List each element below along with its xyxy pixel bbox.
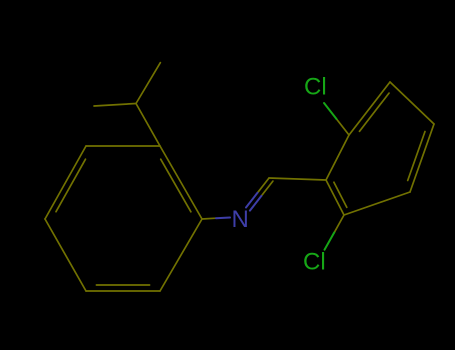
wire inner double C3'=C4': [56, 159, 86, 212]
svg-text:Cl: Cl: [304, 74, 327, 101]
svg-text:N: N: [232, 206, 249, 233]
wire C3'-C4': [45, 146, 86, 219]
wire CH-C1: [269, 178, 326, 180]
wire C6'-C1': [160, 219, 202, 291]
wire C6-Cl olive half: [334, 215, 344, 232]
wire CH=N main olive half: [258, 178, 270, 193]
svg-text:Cl: Cl: [303, 249, 326, 276]
wire C4-C5: [410, 124, 434, 192]
wire C2'-C3': [86, 145, 160, 147]
wire inner double C5'=C6': [96, 284, 149, 286]
wire inner double C2=C3: [360, 93, 390, 131]
wire C2-C3: [349, 82, 390, 135]
isopropyl methyl 1: [136, 63, 160, 104]
wire C3-C4: [390, 82, 434, 124]
wire C2-Cl olive half: [337, 119, 350, 135]
wire inner double C6=C1: [334, 182, 347, 207]
wire C1-C2: [326, 135, 349, 180]
wire inner double C1'=C2': [161, 159, 191, 212]
wire C1'-C2': [160, 146, 202, 219]
isopropyl methyl 2: [94, 104, 136, 107]
wire C2-Cl green half: [324, 103, 337, 119]
wire C6-Cl green half: [325, 232, 335, 249]
wire C4'-C5': [45, 219, 86, 291]
wire CH=N second olive half: [261, 181, 273, 196]
wire C1'-N olive half: [202, 217, 216, 220]
wire C1'-N blue half: [216, 217, 230, 220]
wire C6-C1: [326, 180, 344, 215]
wire inner double C4=C5: [408, 132, 425, 181]
wire CH=N second blue half: [250, 196, 262, 211]
wire CH=N main blue half: [246, 193, 258, 208]
wire C5-C6: [344, 192, 410, 215]
isopropyl CH bond: [136, 104, 160, 147]
wire C5'-C6': [86, 290, 160, 292]
